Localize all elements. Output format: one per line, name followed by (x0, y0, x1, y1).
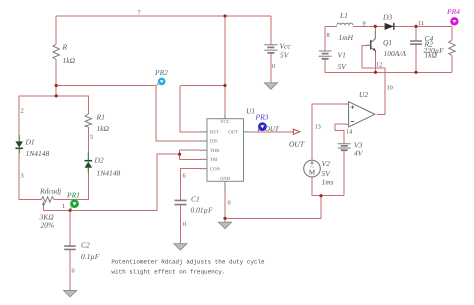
svg-text:1N4148: 1N4148 (97, 169, 121, 178)
svg-text:PR1: PR1 (66, 191, 80, 200)
svg-text:1kΩ: 1kΩ (425, 51, 438, 60)
svg-text:11: 11 (418, 20, 424, 27)
svg-text:CON: CON (210, 166, 221, 172)
svg-text:1: 1 (62, 203, 65, 210)
svg-text:9: 9 (363, 21, 366, 28)
svg-text:6: 6 (183, 173, 186, 180)
svg-text:8: 8 (327, 32, 330, 39)
svg-text:5V: 5V (338, 62, 348, 71)
svg-text:20%: 20% (41, 221, 55, 230)
svg-text:2: 2 (21, 108, 24, 115)
svg-text:TRI: TRI (210, 157, 218, 163)
svg-text:D2: D2 (94, 156, 104, 165)
svg-text:PR4: PR4 (446, 7, 460, 16)
svg-text:U1: U1 (246, 107, 255, 116)
svg-text:Vcc: Vcc (280, 42, 292, 51)
svg-text:12: 12 (376, 62, 382, 69)
svg-text:1ms: 1ms (322, 178, 334, 187)
svg-text:L1: L1 (339, 11, 348, 20)
svg-text:PR2: PR2 (154, 68, 168, 77)
svg-text:1N4148: 1N4148 (26, 149, 50, 158)
svg-text:0: 0 (228, 200, 231, 207)
svg-text:3: 3 (21, 173, 24, 180)
svg-text:DIS: DIS (210, 139, 218, 145)
svg-text:Q1: Q1 (383, 38, 392, 47)
svg-text:7: 7 (138, 10, 141, 17)
svg-text:C2: C2 (81, 241, 90, 250)
svg-text:0.1µF: 0.1µF (81, 252, 100, 261)
svg-text:100A/A: 100A/A (384, 49, 407, 58)
svg-text:0: 0 (183, 221, 186, 228)
svg-text:OUT: OUT (265, 126, 280, 133)
svg-text:U2: U2 (359, 90, 368, 99)
svg-text:Rdcadj: Rdcadj (39, 187, 61, 196)
svg-text:V1: V1 (338, 51, 346, 60)
svg-text:OUT: OUT (228, 130, 238, 136)
svg-text:PR3: PR3 (255, 113, 269, 122)
svg-text:Potentiometer Rdcadj adjusts t: Potentiometer Rdcadj adjusts the duty cy… (111, 259, 265, 266)
svg-text:R1: R1 (96, 113, 105, 122)
svg-text:0: 0 (72, 268, 75, 275)
svg-text:10: 10 (387, 85, 393, 92)
svg-text:4V: 4V (354, 149, 364, 158)
svg-text:D3: D3 (382, 13, 392, 22)
svg-text:V2: V2 (322, 159, 331, 168)
svg-text:GND: GND (220, 176, 231, 182)
svg-text:14: 14 (346, 129, 353, 136)
svg-text:0.01µF: 0.01µF (191, 206, 213, 215)
svg-text:C1: C1 (191, 195, 200, 204)
svg-text:OUT: OUT (289, 140, 305, 149)
svg-text:R: R (62, 43, 68, 52)
svg-text:VCC: VCC (220, 119, 230, 125)
svg-text:5: 5 (90, 134, 93, 141)
svg-text:THR: THR (210, 148, 220, 154)
svg-text:1mH: 1mH (339, 33, 354, 42)
svg-text:0: 0 (272, 63, 275, 70)
svg-text:13: 13 (315, 124, 321, 131)
svg-text:1kΩ: 1kΩ (97, 124, 110, 133)
svg-text:D1: D1 (25, 138, 35, 147)
svg-text:RST: RST (210, 130, 219, 136)
svg-text:5V: 5V (280, 51, 290, 60)
svg-text:with slight effect on frequenc: with slight effect on frequency. (111, 268, 225, 275)
svg-text:1kΩ: 1kΩ (63, 56, 76, 65)
